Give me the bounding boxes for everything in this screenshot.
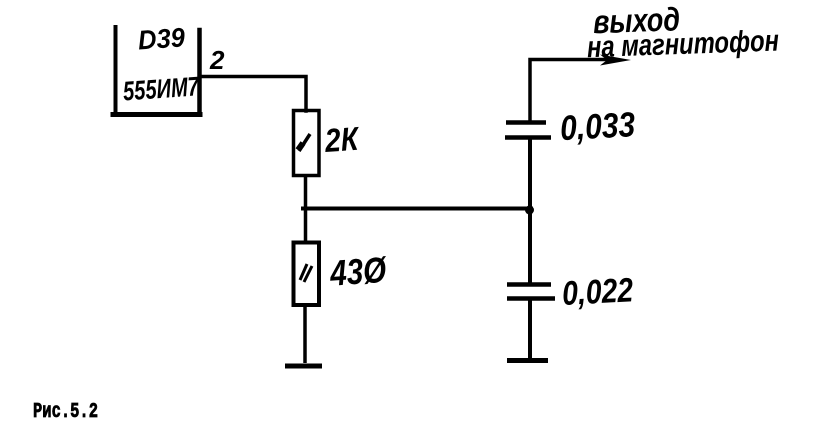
svg-text:0,022: 0,022 (561, 271, 634, 313)
wire capacitor C1 up to arrow corner (530, 60, 606, 122)
junction dot (525, 206, 534, 215)
svg-text:0,033: 0,033 (559, 105, 636, 148)
svg-text:43Ø: 43Ø (328, 249, 389, 294)
ground symbol right (507, 358, 548, 363)
svg-text:555ИМ7: 555ИМ7 (122, 71, 201, 106)
wire C2 bottom to ground (528, 299, 532, 359)
resistor R2 body (294, 243, 320, 306)
capacitor C2 plates (507, 282, 551, 287)
wire from IC pin 2 to resistor R1 (200, 77, 306, 112)
IC U1 box outline (113, 27, 200, 115)
wire R2 bottom to ground (303, 305, 307, 363)
wire R1 bottom to R2 top through node (304, 175, 308, 242)
wire node to capacitor junction (horizontal) (303, 207, 531, 211)
arrowhead to output (600, 55, 631, 66)
resistor R2 slash marks (300, 264, 307, 280)
svg-text:Рис.5.2: Рис.5.2 (33, 401, 98, 424)
wire C1 bottom to junction to C2 top (528, 139, 532, 283)
ground symbol left (285, 364, 322, 369)
svg-text:2: 2 (209, 45, 225, 75)
resistor R1 body (294, 111, 320, 176)
svg-text:2К: 2К (323, 120, 362, 159)
resistor R1 slash mark (299, 134, 310, 151)
capacitor C1 plates (506, 120, 546, 125)
svg-text:D39: D39 (137, 22, 186, 55)
